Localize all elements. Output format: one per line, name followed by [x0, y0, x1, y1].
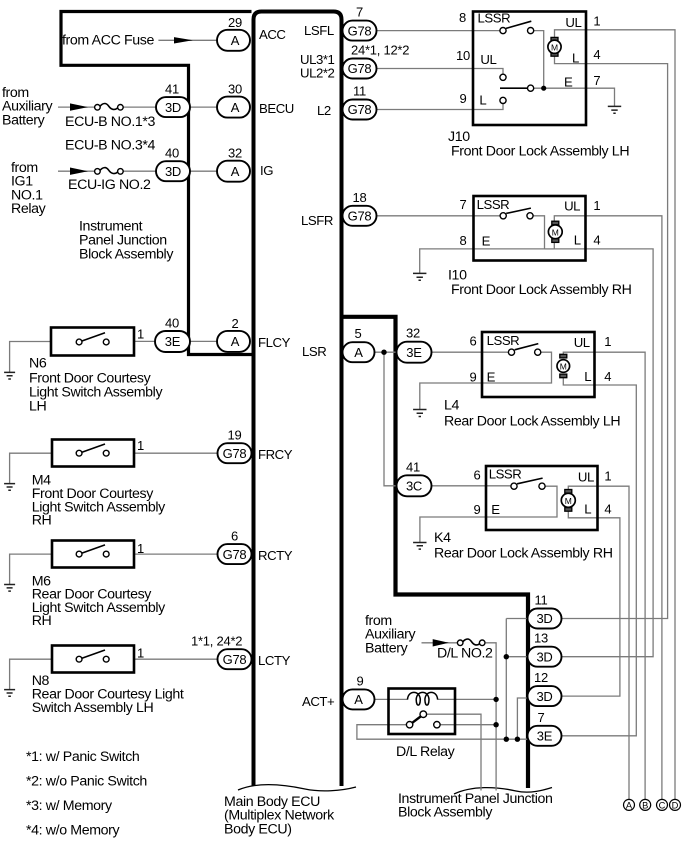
arrow from aux battery: [70, 103, 88, 110]
svg-text:6: 6: [470, 334, 477, 349]
svg-text:6: 6: [474, 468, 481, 483]
svg-text:FLCY: FLCY: [258, 335, 291, 350]
wire relay coil to fuse vertical: [438, 698, 497, 700]
connector G78-7: [343, 21, 377, 41]
arrow from aux battery (D/L): [433, 639, 449, 646]
svg-text:*2: w/o Panic Switch: *2: w/o Panic Switch: [26, 773, 147, 789]
svg-text:E: E: [487, 370, 496, 385]
svg-text:Light Switch Assembly: Light Switch Assembly: [32, 500, 166, 516]
svg-text:ECU-B NO.1*3: ECU-B NO.1*3: [65, 114, 156, 130]
svg-text:ACC: ACC: [259, 27, 286, 42]
svg-text:1*1, 24*2: 1*1, 24*2: [191, 634, 242, 649]
wire 3D11 and 3D13 junction vertical to 3E wire: [506, 619, 527, 740]
K4 LSSR switch: [511, 483, 517, 489]
svg-text:3D: 3D: [165, 164, 181, 179]
Main Body ECU U1 outline: [254, 12, 342, 787]
svg-text:A: A: [231, 334, 240, 349]
wire I10 switch common to E pin8 to ground: [420, 216, 545, 274]
svg-text:3D: 3D: [536, 689, 552, 704]
svg-text:24*1, 12*2: 24*1, 12*2: [351, 43, 409, 58]
svg-text:7: 7: [460, 197, 467, 212]
connector A32: [217, 161, 250, 182]
svg-text:LSR: LSR: [302, 344, 326, 359]
connector 3D13: [528, 647, 562, 667]
svg-text:E: E: [491, 502, 500, 517]
J10 UL contact: [500, 74, 506, 80]
wire M4 switch to ground and to G78 FRCY: [10, 453, 52, 483]
svg-text:Battery: Battery: [2, 112, 46, 128]
I10 LSSR switch: [500, 213, 506, 219]
connector A30: [217, 97, 250, 118]
svg-text:LH: LH: [29, 398, 47, 414]
svg-text:M: M: [565, 496, 572, 506]
wire LSFR G78 to I10 pin7: [376, 215, 500, 217]
svg-text:L: L: [479, 93, 486, 108]
svg-text:D/L Relay: D/L Relay: [396, 744, 456, 760]
svg-text:G78: G78: [348, 61, 372, 76]
ground I10 E: [413, 273, 426, 280]
ground K4 E: [413, 543, 426, 550]
switch M6 box: [52, 541, 134, 568]
svg-text:12: 12: [534, 670, 548, 685]
svg-text:7: 7: [538, 710, 545, 725]
svg-text:*4: w/o Memory: *4: w/o Memory: [26, 822, 121, 838]
svg-text:RH: RH: [32, 613, 52, 629]
wire relay left contact to 3E7 oval: [357, 725, 528, 740]
wire J10 lever common to E pin7 to ground: [534, 88, 615, 106]
svg-text:11: 11: [535, 593, 548, 608]
D/L relay switch: [406, 722, 412, 728]
svg-text:BECU: BECU: [259, 101, 294, 116]
svg-text:A: A: [231, 100, 240, 115]
svg-text:M: M: [551, 42, 558, 52]
M6 switch contacts: [76, 551, 82, 557]
wire J10 LSSR common down: [534, 31, 544, 89]
svg-text:7: 7: [356, 5, 363, 20]
svg-text:30: 30: [228, 82, 242, 97]
svg-text:UL: UL: [564, 199, 580, 214]
switch M4 box: [52, 440, 134, 467]
node D: [670, 799, 681, 810]
connector A2: [217, 331, 250, 352]
svg-text:A: A: [231, 164, 240, 179]
svg-text:from ACC Fuse: from ACC Fuse: [62, 33, 155, 49]
wire L4 switch common to E pin9 to ground: [420, 352, 552, 409]
Main Body ECU wavy bottom edge: [238, 785, 356, 791]
svg-text:3E: 3E: [406, 345, 422, 360]
svg-text:8: 8: [460, 233, 467, 248]
svg-text:Block Assembly: Block Assembly: [79, 247, 174, 263]
svg-text:ECU-B NO.3*4: ECU-B NO.3*4: [65, 138, 156, 154]
svg-text:Light Switch Assembly: Light Switch Assembly: [29, 385, 163, 401]
svg-text:IG: IG: [260, 163, 273, 178]
svg-text:UL2*2: UL2*2: [300, 66, 335, 81]
svg-text:3D: 3D: [165, 100, 181, 115]
svg-text:2: 2: [232, 316, 239, 331]
D/L relay box: [389, 689, 456, 735]
L4 motor M: [557, 354, 570, 377]
svg-text:L2: L2: [317, 103, 331, 118]
connector A29: [217, 30, 250, 51]
svg-text:E: E: [564, 74, 573, 89]
wire 3D12 left to 3E wire: [517, 698, 527, 739]
svg-text:L: L: [584, 369, 591, 384]
node 3E wire a: [504, 737, 509, 742]
K4 motor M: [561, 490, 575, 512]
svg-text:*3: w/ Memory: *3: w/ Memory: [26, 798, 113, 814]
connector 3E32: [397, 342, 432, 363]
svg-text:Front Door Lock Assembly LH: Front Door Lock Assembly LH: [451, 144, 629, 160]
svg-text:L4: L4: [444, 398, 460, 414]
svg-text:G78: G78: [223, 652, 247, 667]
svg-text:41: 41: [406, 459, 420, 474]
svg-text:10: 10: [456, 48, 470, 63]
svg-text:13: 13: [534, 631, 548, 646]
svg-text:N6: N6: [29, 356, 47, 372]
svg-text:A: A: [231, 33, 240, 48]
J10 motor M: [548, 37, 561, 56]
svg-text:1: 1: [137, 327, 144, 342]
svg-text:1: 1: [604, 468, 611, 483]
junction block wavy bottom edge: [454, 788, 552, 795]
node C: [657, 799, 668, 810]
wire I10 motor bottom to pin4 L to 3D13: [554, 243, 653, 657]
D/L relay coil: [408, 692, 438, 705]
node A: [624, 799, 635, 810]
svg-text:ECU-IG NO.2: ECU-IG NO.2: [68, 177, 151, 193]
wire I10 E to motor junction: [545, 248, 555, 250]
svg-text:K4: K4: [434, 530, 451, 546]
wire K4 switch common to E pin9 to ground: [420, 486, 557, 542]
svg-text:40: 40: [165, 316, 179, 331]
svg-text:FRCY: FRCY: [258, 447, 293, 462]
connector 3E40: [155, 331, 190, 352]
door lock L4 box: [482, 332, 595, 397]
wire J10 motor bottom to pin4 L to 3D11: [555, 56, 668, 618]
N6 switch contacts: [76, 339, 82, 345]
svg-text:L: L: [572, 50, 579, 65]
door lock J10 box: [473, 12, 586, 126]
svg-text:1: 1: [593, 13, 600, 28]
connector 3D11: [528, 609, 562, 629]
svg-text:29: 29: [228, 15, 242, 30]
node contact-fuse: [493, 722, 498, 727]
svg-text:Rear Door Lock Assembly LH: Rear Door Lock Assembly LH: [444, 414, 620, 430]
svg-text:LSFR: LSFR: [301, 213, 333, 228]
svg-text:Battery: Battery: [365, 640, 409, 656]
node LSR branch: [381, 350, 386, 355]
svg-text:7: 7: [593, 73, 600, 88]
svg-text:A: A: [354, 345, 363, 360]
svg-text:Front Door Lock Assembly RH: Front Door Lock Assembly RH: [451, 282, 632, 298]
svg-text:Body ECU): Body ECU): [224, 821, 292, 837]
svg-text:G78: G78: [223, 547, 247, 562]
svg-text:LCTY: LCTY: [258, 653, 291, 668]
wire L2 G78 to J10 pin9: [376, 104, 503, 110]
svg-text:Rear Door Lock Assembly RH: Rear Door Lock Assembly RH: [434, 546, 613, 562]
svg-text:4: 4: [593, 232, 600, 247]
wire LSR A5 to 3E32 with branch: [375, 351, 397, 353]
svg-text:UL: UL: [578, 470, 594, 485]
ground M4: [4, 484, 15, 491]
wire N6 switch to ground and to 3E/A FLCY: [10, 342, 51, 373]
switch N8 box: [52, 646, 134, 673]
svg-text:11: 11: [353, 84, 366, 99]
connector A9: [343, 689, 375, 709]
svg-text:Relay: Relay: [11, 201, 47, 217]
L4 LSSR switch: [508, 349, 514, 355]
svg-text:4: 4: [593, 47, 600, 62]
N8 switch contacts: [76, 656, 82, 662]
wire aux battery to D/L NO.2 fuse: [422, 642, 459, 644]
ground N8: [4, 690, 15, 697]
svg-text:32: 32: [406, 326, 420, 341]
svg-text:LSSR: LSSR: [489, 467, 522, 482]
J10 L contact: [500, 97, 506, 103]
door lock I10 box: [474, 196, 586, 261]
svg-text:UL: UL: [480, 52, 496, 67]
ground L4 E: [413, 410, 426, 417]
svg-text:M: M: [552, 227, 559, 237]
wire aux battery to fuse to 3D41 to A30: [58, 106, 95, 108]
svg-text:Block Assembly: Block Assembly: [398, 805, 493, 821]
ground M6: [4, 585, 15, 592]
svg-text:4: 4: [604, 501, 611, 516]
svg-text:1: 1: [593, 198, 600, 213]
connector 3E7: [528, 726, 562, 746]
svg-text:Light Switch Assembly: Light Switch Assembly: [32, 600, 166, 616]
svg-text:41: 41: [165, 82, 179, 97]
svg-text:1: 1: [137, 438, 144, 453]
svg-text:G78: G78: [348, 23, 372, 38]
wire 3E32 to L4 pin6: [432, 351, 509, 353]
fuse D/L NO.2: [457, 639, 485, 646]
svg-text:G78: G78: [348, 209, 372, 224]
svg-text:C: C: [659, 800, 666, 810]
svg-text:3D: 3D: [536, 649, 552, 664]
connector G78-6: [218, 544, 252, 564]
svg-text:19: 19: [228, 428, 242, 443]
connector 3C41: [397, 475, 432, 496]
svg-text:A: A: [626, 800, 633, 810]
arrow from ACC fuse: [174, 37, 193, 43]
svg-text:LSSR: LSSR: [478, 10, 511, 25]
svg-text:M: M: [560, 362, 567, 372]
connector G78-24: [343, 59, 377, 79]
svg-text:RH: RH: [32, 513, 52, 529]
svg-text:1: 1: [137, 646, 144, 661]
wire 3C41 to K4 pin6: [432, 485, 511, 487]
connector 3D41: [156, 97, 190, 117]
wire K4 motor bottom to pin4 L to 3D12: [562, 511, 620, 696]
svg-text:9: 9: [470, 369, 477, 384]
svg-text:UL: UL: [565, 15, 581, 30]
wire UL3/UL2 G78 to J10 pin10: [376, 69, 503, 75]
svg-text:B: B: [642, 800, 648, 810]
svg-text:E: E: [482, 233, 491, 248]
connector G78-LCTY: [218, 649, 252, 669]
node 3D13 branch: [504, 654, 509, 659]
svg-text:32: 32: [228, 146, 242, 161]
connector 3D12: [528, 686, 562, 706]
svg-text:3E: 3E: [537, 729, 553, 744]
instrument panel junction block (bottom-right) outline: [343, 317, 528, 788]
wire ACT+ A9 to relay coil: [375, 698, 408, 700]
svg-text:40: 40: [165, 146, 179, 161]
connector G78-18: [343, 206, 377, 226]
I10 motor M: [548, 221, 562, 242]
wire L4 motor bottom to pin4 L to 3E7: [562, 378, 637, 736]
J10 lever and pivot: [500, 87, 528, 89]
svg-text:RCTY: RCTY: [258, 548, 293, 563]
wire LSFL G78 to J10 pin8: [376, 30, 500, 32]
svg-text:3D: 3D: [536, 611, 552, 626]
connector G78-19: [218, 443, 252, 463]
svg-text:LSSR: LSSR: [487, 333, 520, 348]
svg-text:Switch Assembly LH: Switch Assembly LH: [32, 700, 154, 716]
J10 LSSR switch: [500, 28, 506, 34]
wire N8 switch to ground and to G78 LCTY: [10, 659, 52, 689]
svg-text:LSSR: LSSR: [477, 197, 510, 212]
svg-text:UL: UL: [574, 335, 590, 350]
svg-text:G78: G78: [223, 446, 247, 461]
node 3E wire b: [515, 737, 520, 742]
svg-text:LSFL: LSFL: [304, 23, 334, 38]
wire from ACC fuse to pin 29: [158, 39, 217, 41]
svg-text:L: L: [584, 502, 591, 517]
arrow from IG1 relay: [70, 168, 88, 175]
svg-text:1: 1: [604, 334, 611, 349]
svg-text:6: 6: [231, 529, 238, 544]
door lock K4 box: [486, 466, 598, 530]
svg-text:18: 18: [353, 190, 367, 205]
svg-text:L: L: [574, 233, 581, 248]
wire K4 motor top to pin1 UL to circle A: [568, 486, 629, 799]
ground J10 E: [608, 106, 621, 113]
wire J10 motor top to pin1 UL to circle D: [555, 30, 676, 800]
svg-text:D/L NO.2: D/L NO.2: [437, 646, 493, 662]
svg-text:5: 5: [355, 326, 362, 341]
wire branch down to 3C41: [384, 352, 397, 486]
wire I10 motor top to pin1 UL to circle C: [554, 216, 662, 800]
svg-text:3C: 3C: [406, 479, 422, 494]
svg-text:*1: w/ Panic Switch: *1: w/ Panic Switch: [26, 749, 139, 765]
fuse ECU-IG NO.2: [95, 168, 124, 175]
svg-text:3E: 3E: [165, 334, 181, 349]
svg-text:9: 9: [357, 673, 364, 688]
svg-text:G78: G78: [348, 102, 372, 117]
svg-text:9: 9: [474, 502, 481, 517]
node J10 switch common: [541, 86, 546, 91]
wire D/L NO.2 fuse down junction vertical: [486, 643, 496, 791]
svg-text:ACT+: ACT+: [302, 694, 335, 709]
wire M6 switch to ground and to G78 RCTY: [10, 554, 52, 584]
svg-text:1: 1: [137, 541, 144, 556]
ground N6: [4, 372, 15, 379]
wire relay right contact to fuse vertical: [440, 724, 496, 726]
connector 3D40: [156, 161, 190, 181]
wire relay pivot down to block: [427, 714, 481, 790]
instrument panel junction block (top-left) outline: [61, 12, 252, 355]
fuse ECU-B NO.1: [95, 104, 124, 111]
node B: [640, 799, 651, 810]
svg-text:A: A: [354, 692, 363, 707]
svg-text:8: 8: [459, 10, 466, 25]
svg-text:9: 9: [460, 91, 467, 106]
node coil-fuse: [493, 697, 498, 702]
svg-text:4: 4: [604, 369, 611, 384]
connector A5: [343, 342, 375, 362]
svg-text:D: D: [672, 800, 679, 810]
switch N6 box: [51, 328, 134, 356]
M4 switch contacts: [76, 450, 82, 456]
wire IG1 relay to fuse to 3D40 to A32: [58, 170, 95, 172]
wire L4 motor top to pin1 UL to circle B: [563, 352, 645, 799]
connector G78-11: [343, 100, 377, 120]
